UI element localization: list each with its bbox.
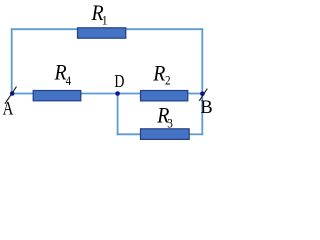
wire top rail right segment — [124, 28, 203, 30]
wire R2 to B — [187, 93, 202, 95]
resistor R1 — [78, 28, 126, 38]
label R4 subscript 4 — [66, 74, 72, 89]
wire bottom rail D to R3 — [117, 133, 141, 135]
node A dot — [10, 91, 15, 96]
label R1 subscript 1 — [102, 13, 108, 28]
svg-text:4: 4 — [66, 74, 72, 89]
resistor R2 — [141, 91, 188, 101]
wire top rail left segment — [11, 28, 79, 30]
wire A to R4 — [12, 93, 34, 95]
label R3 subscript 3 — [167, 116, 173, 131]
wire top-left vertical (A to top rail) — [11, 28, 13, 93]
resistor R4 — [33, 91, 81, 101]
label R1 — [91, 0, 104, 25]
wire R3 to right vertical — [188, 133, 203, 135]
terminal slash at B — [199, 89, 207, 101]
svg-text:A: A — [3, 98, 14, 119]
wire D down vertical — [117, 94, 119, 136]
svg-text:3: 3 — [167, 116, 173, 131]
svg-text:2: 2 — [165, 73, 171, 88]
resistor R3 — [141, 129, 190, 140]
label A — [3, 98, 14, 119]
wire right vertical (top rail through B to bottom rail) — [201, 28, 203, 135]
wire R4 to D — [80, 93, 118, 95]
svg-text:D: D — [114, 73, 124, 92]
node D dot — [115, 91, 120, 96]
label R2 — [152, 60, 165, 85]
svg-text:1: 1 — [102, 13, 108, 28]
node B dot — [200, 91, 205, 96]
label R3 — [156, 102, 169, 127]
svg-text:R: R — [152, 60, 165, 85]
label D — [114, 73, 124, 92]
label R4 — [54, 60, 67, 85]
svg-text:B: B — [200, 97, 212, 118]
wire D to R2 — [118, 93, 141, 95]
label B — [200, 97, 212, 118]
label R2 subscript 2 — [165, 73, 171, 88]
terminal slash at A — [5, 87, 17, 104]
